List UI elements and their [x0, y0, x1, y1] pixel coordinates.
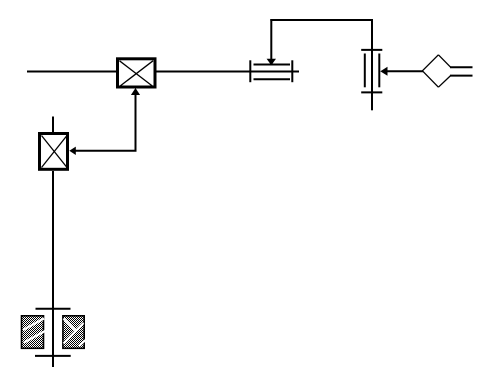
attenuator AT2 (vertical, through line, two end bars + two parallel plates) [361, 19, 382, 110]
port P1 (diamond with double-line output) [422, 55, 472, 87]
wire W3 (horizontal to mixer U2, arrow left into U2) [69, 147, 136, 155]
wire W4 (U2 top stub) [52, 117, 54, 134]
mixer U2 (crossed box) [40, 134, 68, 170]
wire W1 (left input to mixer U1) [27, 71, 117, 73]
attenuator AT1 (horizontal, two end bars + two parallel plates) [250, 60, 292, 82]
wire W7 (top feedback: down-arrow into AT1, across top, into AT2) [267, 19, 373, 65]
wire W6 (U1 right through attenuator AT1) [155, 71, 299, 73]
mixer U1 (crossed box) [118, 59, 156, 87]
wire W2 (U1 bottom port, arrow up into U1) [131, 88, 140, 151]
transducer Y1 (crystal in holder: bars + hatched electrodes) [22, 309, 86, 356]
wire W8 (AT2 output, arrow left out of AT2, to port P1) [380, 67, 423, 76]
wire W5 (U2 bottom down through transducer Y1) [52, 171, 54, 367]
